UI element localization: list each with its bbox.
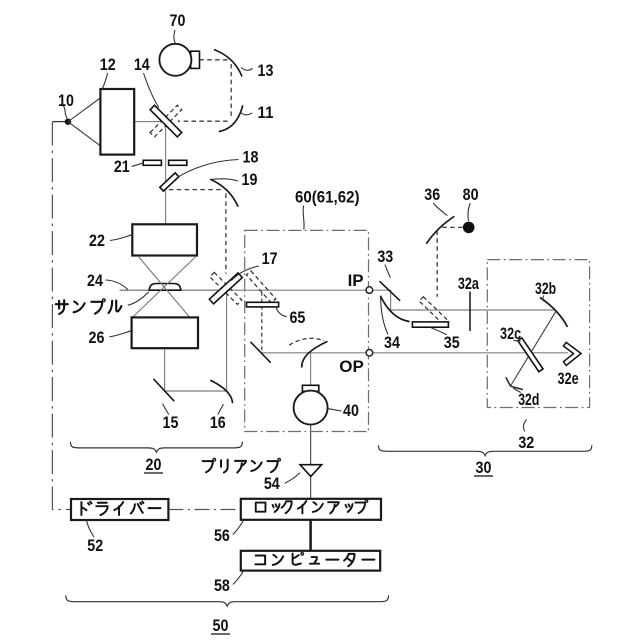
aperture 32a bbox=[469, 292, 471, 332]
lamp 70 window bbox=[191, 51, 200, 68]
leader 18 bbox=[177, 160, 239, 178]
curved element 63 rotated position (dashed) bbox=[289, 338, 324, 345]
leader 15 bbox=[163, 404, 169, 415]
preamp triangle 54 bbox=[300, 465, 322, 477]
svg-text:20: 20 bbox=[146, 455, 162, 474]
svg-text:32e: 32e bbox=[558, 369, 579, 388]
svg-text:80: 80 bbox=[463, 185, 479, 204]
svg-text:32c: 32c bbox=[500, 324, 521, 343]
focus cone line B (lens 22 to lens 26) bbox=[132, 256, 196, 317]
svg-text:58: 58 bbox=[214, 576, 230, 595]
lock-in amp box bbox=[241, 499, 381, 520]
svg-text:24: 24 bbox=[87, 271, 103, 290]
text preamp (katakana) bbox=[203, 458, 281, 472]
svg-text:15: 15 bbox=[163, 413, 179, 432]
flip mirror 14 alternate position (dashed) bbox=[150, 105, 182, 137]
thick wire lock-in amp to computer bbox=[309, 520, 312, 551]
leader 21 bbox=[132, 163, 143, 166]
sample stage line 24 bbox=[120, 289, 227, 291]
element 65 (horizontal plate) bbox=[247, 302, 279, 307]
svg-text:50: 50 bbox=[213, 616, 229, 635]
node 80 (filled dot) bbox=[463, 222, 475, 234]
brace 50 (system) bbox=[66, 595, 389, 606]
brace 30 (analyzer unit) bbox=[378, 445, 591, 456]
flip mirror 17 alternate position (dashed) bbox=[210, 272, 242, 304]
leader 40 bbox=[328, 409, 342, 411]
detector 40 body bbox=[294, 391, 328, 425]
concave mirror 11 bbox=[219, 105, 243, 131]
aperture 21 right blade bbox=[169, 160, 187, 165]
leader 16 bbox=[218, 404, 224, 414]
leader 19 bbox=[212, 179, 238, 181]
computer box bbox=[241, 551, 380, 571]
retarder plate 32c bbox=[518, 338, 543, 372]
laser head 12 bbox=[100, 89, 134, 155]
node OP (open circle) bbox=[366, 350, 373, 357]
svg-text:34: 34 bbox=[384, 333, 400, 352]
node IP (open circle) bbox=[366, 287, 373, 294]
svg-text:18: 18 bbox=[243, 148, 259, 167]
dashed beam lamp 70 to mirror 13 to mirror 11 to mirror 14 bbox=[178, 60, 231, 121]
svg-text:21: 21 bbox=[114, 157, 130, 176]
analyzer unit box 32 (dash-dot border) bbox=[487, 260, 589, 408]
leader 34 bbox=[381, 298, 388, 335]
text computer (katakana) bbox=[255, 553, 374, 567]
svg-text:10: 10 bbox=[58, 91, 74, 110]
dashed beam through element 65 from IP line to mirror 64 bbox=[261, 292, 263, 351]
concave mirror 36 bbox=[426, 216, 454, 244]
svg-text:16: 16 bbox=[210, 413, 226, 432]
dashed beam mirror 18 to mirror 19 to mirror 17 bbox=[169, 190, 226, 274]
svg-text:30: 30 bbox=[476, 458, 492, 477]
mirror 32e (chevron) bbox=[563, 342, 581, 365]
leader 35 bbox=[431, 328, 447, 335]
svg-text:60(61,62): 60(61,62) bbox=[295, 188, 360, 207]
leader 13 bbox=[241, 68, 252, 71]
objective lens 22 bbox=[132, 224, 197, 255]
svg-text:22: 22 bbox=[89, 231, 105, 250]
dash-dot wire driver to lock-in amp bbox=[168, 509, 240, 511]
OP line from mirror 64 through element 63 to node OP and retarder 32c to mirror 32e bbox=[262, 352, 568, 354]
lamp 70 bulb bbox=[159, 44, 191, 76]
leader 10 bbox=[62, 105, 67, 119]
sample beam / IP line from sample through mirror 17 to node IP and mirror 33 bbox=[120, 290, 555, 310]
svg-text:32a: 32a bbox=[458, 274, 479, 293]
concave mirror 32b bbox=[540, 298, 568, 328]
leader 24 bbox=[106, 280, 128, 290]
leader 33 bbox=[385, 265, 390, 278]
text lock-in amp (katakana) bbox=[256, 500, 368, 514]
aperture 21 left blade bbox=[143, 160, 161, 165]
leader sample bbox=[128, 292, 149, 305]
leader 32d bbox=[513, 388, 521, 393]
leader 52 bbox=[86, 520, 94, 537]
svg-text:52: 52 bbox=[87, 536, 103, 555]
svg-text:32: 32 bbox=[518, 433, 534, 452]
modulator unit box 60 (dash-dot border) bbox=[245, 230, 369, 431]
svg-text:26: 26 bbox=[89, 328, 105, 347]
concave mirror 19 bbox=[210, 179, 238, 207]
svg-text:19: 19 bbox=[242, 170, 258, 189]
element 65 tilted position (dashed) bbox=[246, 271, 275, 303]
leader 26 bbox=[110, 331, 131, 337]
focus cone line A (lens 22 to lens 26) bbox=[138, 256, 190, 317]
beam expander cone into laser 12 bbox=[68, 98, 101, 147]
plane mirror 33 bbox=[380, 281, 401, 301]
svg-text:32b: 32b bbox=[535, 279, 556, 298]
curved element 63 bbox=[302, 341, 328, 367]
node 10 (junction dot) bbox=[65, 119, 71, 125]
flip mirror 14 bbox=[150, 105, 182, 137]
wire from detector 40 to preamp 54 bbox=[310, 425, 312, 465]
svg-text:OP: OP bbox=[339, 357, 364, 376]
svg-text:65: 65 bbox=[289, 308, 305, 327]
leader 11 bbox=[241, 113, 252, 115]
left bus wire (dash-dot) from node 10 down to driver bbox=[52, 122, 71, 510]
leader 60 bbox=[302, 206, 305, 230]
leader 32b bbox=[542, 296, 545, 302]
svg-text:70: 70 bbox=[170, 11, 186, 30]
detector 40 window bbox=[302, 385, 318, 391]
leader 56 bbox=[233, 520, 244, 534]
small mirror 18 bbox=[160, 173, 179, 191]
wire from node 10 to left bus bbox=[52, 121, 68, 123]
beam from mirror 14 down through aperture 21 and mirror 18 to lens 22 bbox=[165, 122, 167, 225]
svg-text:IP: IP bbox=[348, 271, 364, 290]
svg-text:36: 36 bbox=[424, 185, 440, 204]
svg-text:33: 33 bbox=[377, 247, 393, 266]
svg-text:54: 54 bbox=[264, 474, 280, 493]
svg-text:12: 12 bbox=[100, 55, 116, 74]
leader 32 bbox=[523, 420, 526, 432]
leader 54 bbox=[285, 473, 300, 484]
objective lens 26 bbox=[132, 317, 198, 348]
svg-text:56: 56 bbox=[214, 526, 230, 545]
flip mirror 17 bbox=[209, 273, 242, 304]
leader 36 bbox=[433, 203, 447, 216]
text driver (katakana) bbox=[81, 502, 160, 515]
svg-text:35: 35 bbox=[444, 333, 460, 352]
svg-text:32d: 32d bbox=[518, 390, 539, 409]
leader 70 bbox=[174, 30, 176, 44]
beam from lens 26 down, right to mirror 16, up to mirror 17 bbox=[165, 292, 227, 391]
leader 14 bbox=[144, 73, 159, 108]
wire from preamp 54 to lock-in amp bbox=[310, 476, 312, 499]
brace 20 (illumination unit) bbox=[70, 442, 242, 453]
svg-text:17: 17 bbox=[262, 249, 278, 268]
svg-text:14: 14 bbox=[134, 55, 150, 74]
beam from laser 12 to mirror 14 bbox=[134, 121, 165, 123]
concave mirror 13 bbox=[214, 50, 242, 77]
svg-text:40: 40 bbox=[343, 401, 359, 420]
leader 58 bbox=[233, 571, 244, 585]
beam from OP line down to detector 40 bbox=[310, 353, 312, 391]
leader 22 bbox=[110, 235, 132, 241]
flip mirror 35 tilted position (dashed) bbox=[419, 297, 449, 326]
flip mirror 35 (horizontal plate) bbox=[412, 322, 448, 327]
leader 32c bbox=[514, 340, 521, 341]
concave mirror 16 bbox=[210, 380, 232, 403]
leader 12 bbox=[102, 73, 107, 89]
driver box bbox=[71, 499, 168, 520]
sample lens 24 bbox=[149, 284, 181, 291]
plane mirror 15 bbox=[154, 379, 175, 401]
concave mirror 34 bbox=[380, 296, 409, 322]
leader 17 bbox=[231, 266, 259, 281]
svg-text:13: 13 bbox=[258, 61, 274, 80]
text sample (katakana) bbox=[56, 299, 122, 314]
dashed beam node 80 to mirror 36 to mirror 35 bbox=[437, 227, 462, 296]
arrow 32d bbox=[506, 377, 523, 389]
plane mirror 64 bbox=[251, 342, 271, 363]
diagonal beam 32b to arrow 32d bbox=[511, 311, 556, 386]
leader 65 bbox=[276, 308, 286, 317]
leader 80 bbox=[468, 203, 470, 221]
svg-text:11: 11 bbox=[258, 103, 274, 122]
